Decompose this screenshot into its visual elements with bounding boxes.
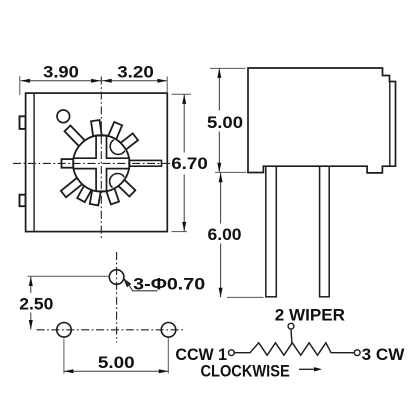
leader line <box>125 279 158 291</box>
6.00 down arrow <box>219 288 223 298</box>
extension left <box>63 339 65 374</box>
top dim left arrow (3.90) <box>21 79 31 83</box>
5.00 down arrow <box>217 163 221 173</box>
svg-text:6.70: 6.70 <box>171 154 208 173</box>
left mounting tab lower <box>20 195 26 207</box>
footprint vertical centerline <box>116 252 118 343</box>
terminal 1 circle <box>229 350 235 356</box>
side body outline <box>248 68 396 173</box>
top dim right arrow (3.20) <box>157 79 167 83</box>
svg-text:5.00: 5.00 <box>98 353 135 372</box>
svg-text:3.90: 3.90 <box>43 63 79 82</box>
wire left <box>234 352 250 354</box>
3.20 extension line right <box>166 76 168 92</box>
footprint horizontal centerline <box>37 329 186 331</box>
2.50 dim line lower <box>30 313 32 330</box>
svg-text:3 CW: 3 CW <box>362 345 406 364</box>
body inner left plate line <box>33 94 35 232</box>
6.70 down arrow <box>182 222 186 232</box>
bottom 5.00 right arrow <box>159 369 169 373</box>
hole bottom-left (pin 1) <box>57 323 72 338</box>
trimmer body outline <box>26 93 168 232</box>
svg-text:5.00: 5.00 <box>207 113 243 132</box>
6.70 extension bottom <box>172 231 188 233</box>
6.00 dim line upper <box>220 173 222 224</box>
rotor slot extension bar <box>126 160 162 166</box>
5.00 dim line lower <box>218 132 220 173</box>
5.00 up arrow <box>217 68 221 78</box>
wiper wire <box>290 329 293 343</box>
hole bottom-right (pin 3) <box>161 323 176 338</box>
5.00/6.00 extension middle <box>215 171 246 173</box>
5.00 dim line upper <box>218 68 220 110</box>
bottom 5.00 left arrow <box>64 369 74 373</box>
clockwise arrow line <box>299 368 315 370</box>
top dim mid right-pointing arrow <box>91 79 101 83</box>
svg-text:2 WIPER: 2 WIPER <box>275 305 345 324</box>
extension right <box>167 338 169 374</box>
rotor stop circle lower <box>110 174 126 190</box>
clockwise arrow <box>314 367 322 371</box>
svg-text:6.00: 6.00 <box>208 225 242 244</box>
svg-text:3.20: 3.20 <box>117 63 154 82</box>
svg-text:CLOCKWISE: CLOCKWISE <box>201 362 290 381</box>
6.70 dim line lower <box>183 175 185 232</box>
front view vertical centerline <box>100 77 102 239</box>
6.70 extension top <box>172 93 191 95</box>
pin 1 (side view) <box>266 166 277 297</box>
3.90/3.20 dimension line <box>21 80 167 82</box>
6.00 up arrow <box>219 173 223 183</box>
hole top (pin 2) <box>109 270 124 285</box>
left mounting tab upper <box>20 116 26 129</box>
rotor gear teeth <box>61 120 138 205</box>
terminal 3 circle <box>354 350 360 356</box>
dim line <box>64 370 168 372</box>
6.70 up arrow <box>182 94 186 104</box>
2.50 dim line upper <box>30 277 32 294</box>
2.50 up arrow <box>29 277 33 287</box>
6.70 dim line upper <box>183 94 185 152</box>
anti-rotation pin circle <box>57 110 70 123</box>
rotor stop circle upper <box>110 138 126 154</box>
svg-text:3-Φ0.70: 3-Φ0.70 <box>133 274 205 293</box>
rotor cross slot <box>73 136 129 192</box>
resistor zigzag <box>250 343 331 355</box>
6.00 extension bottom <box>227 296 264 298</box>
rotor circle <box>73 135 129 191</box>
front view horizontal centerline <box>13 162 173 164</box>
5.00 extension top <box>210 67 245 69</box>
wire right <box>331 352 355 354</box>
side rotor strip inner line <box>389 82 391 166</box>
leader arrow <box>123 278 131 288</box>
2.50 extension top <box>28 275 110 277</box>
2.50 down arrow <box>29 320 33 330</box>
top dim mid left-pointing arrow <box>102 79 112 83</box>
6.00 dim line lower <box>220 244 222 298</box>
3.90 extension line left <box>19 76 21 95</box>
pin 2 (side view) <box>320 166 330 297</box>
wiper terminal circle (pin 2) <box>288 323 294 329</box>
svg-text:2.50: 2.50 <box>19 295 53 314</box>
